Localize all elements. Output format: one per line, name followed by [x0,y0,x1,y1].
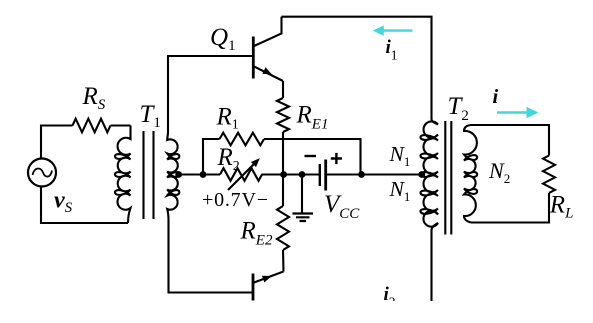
label battery plus [331,153,342,164]
transistor Q1 emitter [254,67,283,82]
wire load loop bottom [471,193,549,223]
transistor Q2 emitter arrow [262,276,272,283]
label i2 (clipped at image crop) [384,284,396,310]
transistor Q1 collector [254,17,282,46]
wire top rail collector to T2 primary top [282,17,432,119]
transformer T2 primary coil (N1,N1) [420,121,438,226]
battery VCC negative plate [319,164,321,186]
wire T1 secondary top to Q1 base [168,56,252,132]
transistor Q2 emitter [254,272,284,283]
transformer T1 core [144,131,154,219]
wire RE2 to Q2 emitter [282,250,285,272]
transformer T1 secondary coil [167,132,179,220]
current arrow i1 [373,25,413,35]
source vs (AC sine source) [28,159,56,187]
wire R1 to battery positive node [264,139,361,175]
wire top-right rail into T2 primary [432,119,439,125]
transistor Q1 emitter arrow [262,67,272,74]
resistor RL [543,156,555,193]
wire T2 primary bottom (i2 branch) [432,223,439,301]
resistor RS [73,119,111,133]
wire load loop top [471,125,549,156]
wire battery to T2 tap [326,173,419,175]
node R1-battery junction [358,171,365,178]
transformer T1 primary coil [115,126,131,224]
node T2 primary center tap [418,171,425,178]
resistor R2 (variable) [220,168,262,181]
node T1 secondary center tap [175,171,182,178]
resistor RE1 [277,98,289,132]
resistor R1 [220,133,265,146]
node RE1/RE2/R2 junction [280,171,287,178]
transistor Q2 base bar [252,274,255,301]
wire rail T1 tap to R2 [182,173,220,175]
wire R2 to battery [262,173,320,175]
transformer T2 secondary coil (N2) [464,125,477,223]
wire Q1 emitter to RE1 [282,81,284,98]
label battery minus [305,155,317,157]
wire rail node up to R1 [203,139,220,175]
svg-text:i: i [493,86,499,108]
resistor RE2 [277,206,289,250]
node ground junction [299,171,306,178]
wire RE1 to rail node [282,132,284,175]
wire T1 secondary bottom to Q2 base [169,220,253,293]
wire rail to RE2 [282,175,284,207]
transformer T2 core [445,121,451,235]
svg-text:+0.7V−: +0.7V− [202,189,269,211]
battery VCC positive plate [324,160,327,191]
arrow through R2 [228,158,260,190]
node R1/R2/base junction [200,171,207,178]
current arrow i [497,107,539,118]
ground symbol [293,175,314,222]
wire left-loop: vs to RS to T1 primary top, and bottom return [41,126,131,224]
transistor Q1 base bar [252,37,255,79]
